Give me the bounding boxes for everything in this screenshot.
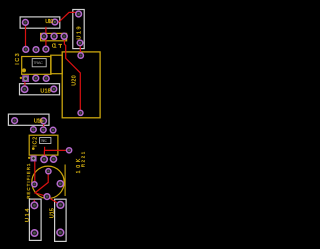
- pad U19-1: [76, 11, 82, 17]
- pad C1-3: [61, 33, 67, 39]
- svg-text:C1: C1: [52, 43, 57, 49]
- svg-text:TRIAC: TRIAC: [33, 61, 43, 65]
- pads: violet rings: [12, 11, 84, 236]
- IC3 pin1 dot outer: [20, 77, 22, 79]
- pad U16-2: [41, 118, 47, 124]
- svg-text:IC2: IC2: [33, 137, 39, 147]
- IC2 silkscreen box: [29, 135, 58, 155]
- wire rectifier pad D to U15 pad1: [47, 197, 60, 205]
- wire C1 pad3 to U20 pad: [64, 39, 80, 113]
- via right of IC2: [67, 148, 72, 153]
- pad U10-2: [52, 19, 58, 25]
- IC U16 outline: [8, 114, 49, 125]
- silkscreen tick mark right of C1 label: [58, 44, 62, 48]
- pad U14-1: [31, 202, 38, 209]
- svg-text:U10: U10: [45, 19, 53, 25]
- pad rectifier A: [46, 169, 51, 174]
- pad U15-2: [57, 229, 64, 236]
- wire to via right of IC2: [45, 147, 67, 151]
- wire IC3 square pad to U18 pad1: [24, 82, 26, 87]
- svg-text:RECTIFIER1: RECTIFIER1: [26, 163, 31, 199]
- value box of IC2: [40, 138, 51, 144]
- IC2 pin1 dot outer: [28, 157, 30, 159]
- pad C1-2: [51, 33, 57, 39]
- value box of IC3: [32, 59, 46, 67]
- silkscreen box right of IC3: [51, 55, 63, 73]
- wire U16 pad2 down to IC2 pad2: [43, 124, 45, 128]
- wire branch down to row2 circle pad1: [43, 150, 45, 156]
- IC U19 outline: [73, 10, 84, 49]
- svg-text:U19: U19: [76, 27, 82, 40]
- square pad pin1 of row2: [31, 156, 36, 161]
- IC U15 outline: [55, 199, 67, 241]
- pad U18-2: [51, 86, 57, 92]
- wire row2 square pad down to rectifier pad B: [34, 161, 36, 182]
- svg-text:U20: U20: [71, 75, 77, 86]
- silkscreen line right of rectifier: [64, 165, 66, 197]
- pad row2 circle1: [41, 156, 47, 162]
- wire U10 pad2 to U19 pad1: [55, 12, 77, 22]
- pad U18-1: [21, 86, 27, 92]
- IC3 pin1 dot inner: [22, 68, 26, 72]
- svg-text:TRIAC: TRIAC: [41, 139, 48, 143]
- IC2 pin1 dot inner: [32, 147, 35, 150]
- connector U20 silkscreen box: [62, 52, 100, 118]
- wire U19 pad2 down to via P1: [79, 46, 81, 53]
- pad U19-2: [77, 40, 83, 46]
- pad U15-1: [57, 202, 64, 209]
- pad IC2 top 1: [31, 127, 37, 133]
- svg-text:U14: U14: [25, 209, 31, 222]
- capacitor C1 silkscreen box: [41, 33, 67, 40]
- pad rectifier E: [57, 181, 63, 187]
- pad U14-2: [31, 230, 38, 237]
- pad inner hole highlights: [14, 13, 82, 234]
- pad IC2 top 2: [41, 127, 47, 133]
- wire through C1 box to row1 pad3: [45, 27, 47, 47]
- wire stub into U14 pad1: [33, 200, 35, 203]
- pad C1-1: [41, 33, 47, 39]
- pad rectifier D: [44, 194, 50, 200]
- pad U16-1: [12, 118, 18, 124]
- rectifier circle outline: [32, 166, 64, 198]
- pad row1-1: [23, 47, 29, 53]
- IC U14 outline: [29, 199, 41, 240]
- svg-text:U15: U15: [50, 208, 56, 218]
- svg-text:R221: R221: [80, 151, 85, 167]
- wire U10 pad1 down to row1 pad1: [25, 25, 27, 48]
- svg-text:U18: U18: [40, 89, 50, 95]
- pad row2 circle2: [50, 156, 56, 162]
- svg-text:U16: U16: [34, 118, 43, 124]
- pad IC3 bottom circle1: [33, 75, 39, 81]
- pad IC2 top 3: [50, 127, 56, 133]
- IC3 silkscreen box: [22, 57, 51, 75]
- pad U10-1: [23, 20, 29, 26]
- pad U20-1: [78, 110, 83, 115]
- IC U10 outline: [20, 17, 60, 28]
- pad row1-2: [33, 47, 39, 53]
- square pad pin1 of IC3: [23, 76, 29, 82]
- pad rectifier B: [32, 182, 37, 187]
- pad row1-3: [43, 46, 49, 52]
- pad IC3 bottom circle2: [43, 76, 49, 82]
- IC U18 outline: [20, 84, 60, 95]
- via P1 below U19: [78, 53, 83, 58]
- wire rectifier pad A down and to pad D: [35, 174, 48, 197]
